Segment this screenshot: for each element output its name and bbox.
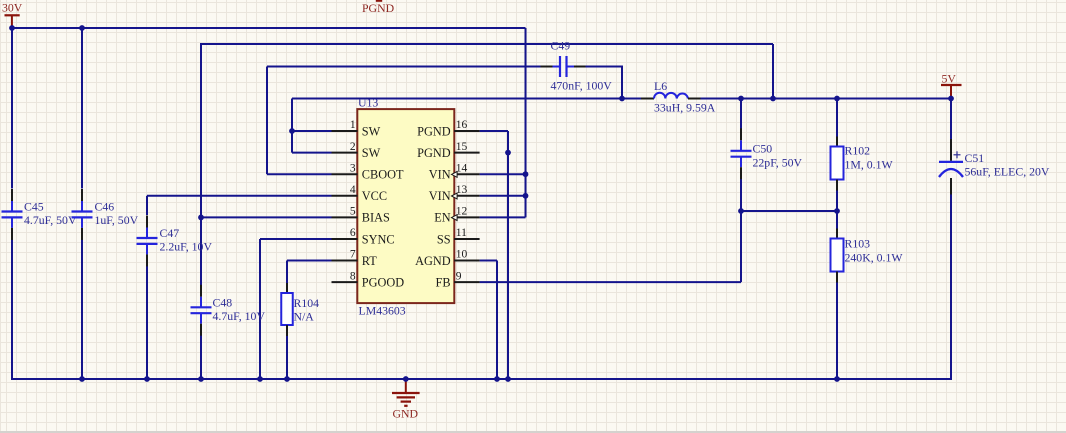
svg-text:8: 8: [350, 270, 356, 282]
wire C49 right to SW rail: [586, 66, 623, 68]
capacitor C50: [731, 128, 752, 179]
pin 4 VCC: [332, 184, 388, 203]
svg-text:56uF, ELEC, 20V: 56uF, ELEC, 20V: [965, 165, 1050, 179]
svg-text:AGND: AGND: [415, 254, 451, 268]
wire SYNC ground vertical: [259, 239, 261, 379]
junction SW pin1: [289, 128, 295, 134]
junction C49 leg on SW rail: [619, 96, 625, 102]
svg-text:BIAS: BIAS: [362, 211, 390, 225]
svg-text:SW: SW: [362, 124, 381, 138]
wire VCC pin 4: [147, 195, 332, 197]
pin 7 RT: [332, 249, 378, 268]
wire C51 branch bottom vertical: [950, 195, 952, 381]
svg-text:9: 9: [456, 270, 462, 282]
svg-text:3: 3: [350, 162, 356, 174]
svg-text:EN: EN: [434, 211, 451, 225]
capacitor C46: [72, 189, 93, 240]
junction bottom rail R104: [284, 376, 290, 382]
power symbol PGND top: [362, 0, 395, 15]
pin 5 BIAS: [332, 206, 390, 225]
pin 15 PGND: [417, 141, 479, 160]
svg-text:1uF, 50V: 1uF, 50V: [95, 213, 139, 227]
wire CBOOT vertical: [266, 67, 268, 175]
junction BIAS leg on SW rail: [770, 96, 776, 102]
wire AGND pin 10: [480, 260, 497, 262]
wire R102 top vertical: [836, 99, 838, 137]
svg-text:CBOOT: CBOOT: [362, 168, 404, 182]
svg-text:SYNC: SYNC: [362, 232, 395, 246]
svg-text:2.2uF, 10V: 2.2uF, 10V: [160, 240, 213, 254]
pin 3 CBOOT: [332, 162, 404, 181]
pin 9 FB: [436, 270, 480, 289]
wire C50 upper vertical: [740, 99, 742, 129]
plus sign C51: [954, 151, 961, 158]
pin 6 SYNC: [332, 227, 395, 246]
svg-text:16: 16: [456, 119, 468, 131]
svg-text:1: 1: [350, 119, 356, 131]
svg-text:GND: GND: [393, 406, 419, 420]
wire EN pin 12: [480, 216, 526, 218]
power symbol 30V: [2, 0, 23, 28]
capacitor C49: [541, 56, 586, 77]
svg-text:15: 15: [456, 141, 468, 153]
svg-text:C48: C48: [213, 296, 233, 310]
svg-text:2: 2: [350, 141, 356, 153]
wire VIN pin 13: [480, 195, 526, 197]
svg-text:U13: U13: [358, 95, 378, 109]
resistor R104: [281, 283, 293, 336]
wire PGND ground vertical: [507, 131, 509, 379]
wire VIN pin 14: [480, 173, 526, 175]
junction VIN pin13: [523, 193, 529, 199]
pin 10 AGND: [415, 249, 480, 268]
svg-text:10: 10: [456, 249, 468, 261]
junction PGND pin15: [505, 150, 511, 156]
capacitor C45: [2, 189, 23, 240]
wire AGND ground vertical: [496, 261, 498, 380]
svg-text:C45: C45: [24, 200, 44, 214]
svg-text:LM43603: LM43603: [359, 304, 406, 318]
wire SW pins vertical: [291, 99, 293, 153]
svg-text:PGOOD: PGOOD: [362, 275, 404, 289]
junction 5V C51 on SW rail: [948, 96, 954, 102]
pin 11 SS: [437, 227, 480, 246]
junction bottom rail R103: [834, 376, 840, 382]
junction R102 leg on SW rail: [834, 96, 840, 102]
wire C46 branch vertical: [81, 28, 83, 189]
svg-text:33uH, 9.59A: 33uH, 9.59A: [654, 101, 716, 115]
svg-text:240K, 0.1W: 240K, 0.1W: [845, 251, 904, 265]
wire C45 branch vertical: [11, 27, 13, 189]
svg-text:VIN: VIN: [429, 189, 451, 203]
svg-text:5V: 5V: [942, 71, 957, 85]
svg-text:1M, 0.1W: 1M, 0.1W: [845, 158, 894, 172]
svg-text:11: 11: [456, 227, 467, 239]
wire VOUT-BIAS right leg vertical: [772, 44, 774, 99]
wire C51 branch top vertical: [950, 99, 952, 140]
svg-text:SW: SW: [362, 146, 381, 160]
wire CBOOT to C49 left: [267, 66, 541, 68]
svg-text:R104: R104: [294, 296, 320, 310]
svg-text:7: 7: [350, 249, 356, 261]
svg-text:22pF, 50V: 22pF, 50V: [753, 156, 803, 170]
pin 14 VIN: [429, 162, 480, 181]
svg-text:VIN: VIN: [429, 168, 451, 182]
junction bottom rail C48: [198, 376, 204, 382]
wire PGND pin 16: [480, 130, 508, 132]
svg-text:PGND: PGND: [362, 1, 395, 15]
wire R103 bottom vertical: [836, 282, 838, 379]
wire R102-R103 middle vertical: [836, 190, 838, 229]
wire VIN/EN vertical from 30V rail: [525, 28, 527, 217]
svg-text:VCC: VCC: [362, 189, 387, 203]
svg-text:C51: C51: [965, 151, 985, 165]
resistor R102: [831, 137, 844, 191]
capacitor C51 polarized: [939, 139, 963, 195]
svg-text:R103: R103: [845, 237, 871, 251]
wire SW pin 1: [292, 130, 332, 132]
wire RT/R104 vertical: [286, 261, 288, 284]
svg-text:C46: C46: [95, 200, 115, 214]
svg-text:PGND: PGND: [417, 146, 451, 160]
pin 8 PGOOD: [332, 270, 405, 289]
pin 1 SW: [332, 119, 381, 138]
svg-text:C49: C49: [551, 39, 571, 53]
junction bottom rail AGND: [494, 376, 500, 382]
svg-text:N/A: N/A: [294, 310, 315, 324]
capacitor C47: [137, 216, 158, 267]
wire FB horizontal from pin 9: [480, 281, 741, 283]
junction C46 top: [79, 25, 85, 31]
svg-text:470nF, 100V: 470nF, 100V: [551, 79, 613, 93]
junction bottom rail C47: [144, 376, 150, 382]
svg-text:R102: R102: [845, 144, 871, 158]
wire SW output rail right of L6: [701, 98, 952, 100]
svg-text:6: 6: [350, 227, 356, 239]
junction bottom rail PGND: [505, 376, 511, 382]
svg-text:30V: 30V: [2, 0, 23, 14]
pin 13 VIN: [429, 184, 480, 203]
wire C49 right leg vertical: [621, 66, 623, 99]
junction C50 leg on SW rail: [738, 96, 744, 102]
junction VIN pin14: [523, 171, 529, 177]
svg-text:PGND: PGND: [417, 124, 451, 138]
wire BIAS pin 5: [201, 216, 332, 218]
junction bottom rail SYNC: [257, 376, 263, 382]
pin 2 SW: [332, 141, 381, 160]
svg-text:4.7uF, 10V: 4.7uF, 10V: [213, 309, 266, 323]
svg-text:4: 4: [350, 184, 356, 196]
svg-text:RT: RT: [362, 254, 377, 268]
pin 12 EN: [434, 206, 479, 225]
svg-text:4.7uF, 50V: 4.7uF, 50V: [24, 213, 77, 227]
pin 16 PGND: [417, 119, 479, 138]
resistor R103: [831, 229, 844, 283]
wire RT pin 7: [287, 260, 332, 262]
wire SW pin 2: [292, 152, 332, 154]
wire C50 lower / FB riser vertical: [740, 179, 742, 282]
wire GND bottom rail: [11, 378, 951, 380]
wire C47 branch vertical: [146, 196, 148, 215]
ground GND symbol: [392, 379, 420, 420]
junction bottom rail GND symbol: [403, 376, 409, 382]
svg-text:5: 5: [350, 206, 356, 218]
wire BIAS-VOUT top horizontal: [200, 43, 773, 45]
power symbol 5V: [941, 71, 962, 98]
junction bottom rail C46: [79, 376, 85, 382]
wire FB divider junction horizontal: [741, 210, 837, 212]
junction divider right: [834, 208, 840, 214]
svg-text:C50: C50: [753, 142, 773, 156]
svg-text:C47: C47: [160, 226, 180, 240]
junction divider left: [738, 208, 744, 214]
wire SW output rail left of L6: [292, 98, 641, 100]
wire SYNC pin 6: [260, 238, 332, 240]
inductor L6: [641, 93, 701, 99]
svg-text:L6: L6: [654, 79, 667, 93]
junction BIAS tee: [198, 215, 204, 221]
wire CBOOT pin 3: [267, 173, 332, 175]
wire BIAS/C48 branch vertical: [200, 44, 202, 285]
wire 30V top rail: [11, 27, 526, 29]
svg-text:FB: FB: [436, 275, 451, 289]
svg-text:SS: SS: [437, 232, 451, 246]
capacitor C48: [191, 285, 212, 336]
op-amp U13 LM43603 body: [357, 109, 454, 303]
junction 30V power: [9, 25, 15, 31]
